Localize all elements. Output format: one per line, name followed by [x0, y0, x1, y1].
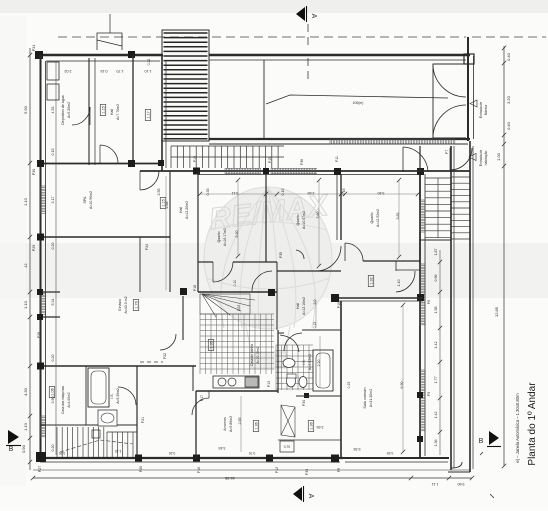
- short wall y=317: [37, 316, 60, 318]
- svg-text:P31: P31: [32, 45, 36, 51]
- svg-text:Entrada de: Entrada de: [479, 150, 483, 167]
- top exterior wall left part: [37, 54, 163, 56]
- svg-text:P18: P18: [193, 285, 197, 291]
- window band garage bottom wall: [330, 139, 455, 144]
- svg-text:I.S.: I.S.: [110, 393, 114, 398]
- junction top wall x=130: [128, 51, 135, 58]
- svg-text:P17: P17: [200, 395, 204, 401]
- wall below spa room / hall 12.20 left wall: [139, 237, 141, 292]
- bedroom3 door leaf: [344, 243, 346, 261]
- svg-text:P7: P7: [445, 150, 449, 154]
- svg-text:P16: P16: [197, 467, 201, 473]
- section marker B left: [8, 430, 19, 444]
- main stairwell treads: [425, 178, 451, 238]
- svg-text:5.20: 5.20: [235, 231, 239, 238]
- svg-text:3.80: 3.80: [316, 212, 320, 219]
- dashed line y=362: [140, 361, 163, 363]
- closet door P35: [296, 250, 304, 259]
- sala west wall x=341: [340, 301, 342, 458]
- svg-text:P35: P35: [279, 252, 283, 258]
- svg-text:1.36: 1.36: [434, 440, 438, 447]
- svg-text:A: A: [310, 14, 317, 19]
- bathroom top wall y=292: [198, 291, 277, 293]
- svg-text:B: B: [479, 438, 484, 445]
- svg-text:P11: P11: [335, 156, 339, 162]
- svg-text:1.10: 1.10: [23, 197, 28, 206]
- sala bottom wall: [343, 457, 449, 459]
- svg-text:A=31.30m2: A=31.30m2: [369, 389, 373, 407]
- svg-text:3.17: 3.17: [51, 197, 55, 204]
- stairs direction line: [60, 440, 133, 452]
- svg-text:0.96: 0.96: [434, 275, 438, 282]
- svg-text:A=7.70m2: A=7.70m2: [116, 104, 120, 120]
- svg-text:0.25: 0.25: [387, 451, 394, 455]
- window corridor wall 1: [225, 168, 261, 173]
- svg-text:2.55: 2.55: [157, 189, 161, 196]
- corridor bottom wall: [140, 170, 470, 172]
- svg-text:0.05: 0.05: [237, 305, 241, 311]
- svg-text:A=5.35m2: A=5.35m2: [116, 388, 120, 404]
- left dimension chain: [29, 48, 31, 470]
- svg-text:SPA: SPA: [83, 196, 87, 204]
- IS 5.35 door arc: [118, 387, 136, 405]
- svg-text:5.35: 5.35: [354, 447, 361, 451]
- svg-text:P24: P24: [145, 244, 149, 250]
- svg-text:2.65: 2.65: [317, 425, 324, 429]
- svg-text:3.11: 3.11: [232, 191, 239, 195]
- stray marks bottom right: [490, 494, 494, 498]
- small room walls bottom-center: [296, 395, 341, 397]
- svg-text:1.10: 1.10: [145, 69, 152, 73]
- svg-text:0.15: 0.15: [51, 149, 55, 156]
- corridor stair treads: [171, 146, 284, 168]
- window east wall middle: [420, 264, 425, 326]
- svg-text:3.20: 3.20: [506, 95, 511, 104]
- svg-text:1.10: 1.10: [23, 422, 28, 431]
- svg-text:P13: P13: [267, 381, 271, 387]
- hall/sala divider wall y=298: [339, 297, 423, 299]
- svg-text:A=12.92m2: A=12.92m2: [376, 209, 380, 227]
- svg-text:B: B: [9, 446, 14, 453]
- svg-text:0.15: 0.15: [342, 189, 346, 196]
- svg-text:0.15: 0.15: [313, 322, 317, 329]
- door arc hall lower-left (P22): [160, 334, 176, 350]
- svg-text:P19: P19: [193, 156, 197, 162]
- IS 5.35 small basin: [92, 430, 100, 438]
- junction top-left inner: [128, 160, 135, 167]
- svg-text:3.45: 3.45: [219, 446, 226, 450]
- svg-text:A=16.17m2: A=16.17m2: [223, 228, 227, 246]
- junction P14: [268, 289, 275, 296]
- svg-text:1.42: 1.42: [434, 412, 438, 419]
- svg-text:0.15: 0.15: [347, 382, 351, 389]
- svg-text:Casa de banho: Casa de banho: [250, 344, 254, 367]
- wall left of stair block down: [161, 55, 163, 171]
- bathroom tile grid B: [276, 345, 313, 390]
- shaft with X bottom-center: [281, 405, 295, 437]
- svg-text:A=4.62m2: A=4.62m2: [308, 354, 312, 370]
- svg-text:0.20: 0.20: [51, 445, 55, 452]
- svg-text:1.17: 1.17: [147, 111, 151, 118]
- garage ramp arrow: [266, 95, 448, 104]
- svg-text:2.65: 2.65: [308, 191, 315, 195]
- svg-text:P12: P12: [275, 467, 279, 473]
- svg-text:12.85: 12.85: [494, 306, 499, 317]
- svg-text:4.53: 4.53: [51, 107, 55, 114]
- door arc deposits: [72, 107, 90, 125]
- svg-text:Entrada de: Entrada de: [479, 102, 483, 119]
- corridor wall x=183: [182, 296, 184, 340]
- svg-text:5.90: 5.90: [23, 105, 28, 114]
- svg-text:A=9.20m2: A=9.20m2: [67, 102, 71, 118]
- IS washbasin: [283, 359, 295, 368]
- svg-text:Hall: Hall: [110, 109, 114, 115]
- svg-text:0.70: 0.70: [284, 445, 291, 449]
- window left wall upper: [40, 186, 45, 214]
- svg-text:P9: P9: [337, 468, 341, 472]
- bath/IS divider wall x=277: [277, 330, 279, 393]
- svg-text:habitação: habitação: [484, 151, 488, 166]
- terrace wall (right): [450, 146, 452, 470]
- svg-text:P22: P22: [163, 353, 167, 359]
- svg-text:0.15: 0.15: [101, 69, 108, 73]
- bedroom1 west wall x=198: [197, 171, 199, 292]
- svg-text:A: A: [307, 494, 314, 499]
- svg-text:Hall: Hall: [296, 303, 300, 309]
- svg-text:Casa das máquinas: Casa das máquinas: [61, 386, 65, 415]
- svg-text:3.83: 3.83: [396, 213, 400, 220]
- svg-text:A=10.90m2: A=10.90m2: [89, 191, 93, 209]
- door arc kitchen: [396, 271, 415, 292]
- svg-text:3.0: 3.0: [313, 300, 317, 305]
- svg-text:P33: P33: [305, 469, 309, 475]
- junction P20: [135, 455, 142, 462]
- wall above lower stairs y=425: [40, 424, 137, 426]
- svg-text:Depósitos de água: Depósitos de água: [61, 95, 65, 124]
- svg-text:1.32: 1.32: [370, 277, 374, 284]
- east wall of building with windows: [419, 172, 421, 458]
- bedroom1/2 wall x=266: [265, 174, 267, 262]
- deposit tank 2: [47, 84, 59, 100]
- right dimension chain: [503, 46, 505, 466]
- boxed 0.70 area: [280, 441, 294, 452]
- section marker A bottom: [293, 487, 302, 501]
- casa maquinas bathtub (IS 5.35): [88, 368, 109, 407]
- bedroom2 bottom wall y=271: [277, 270, 341, 272]
- garage inner partition: [263, 60, 265, 138]
- IS 4.62 fixtures: shower: [280, 335, 299, 352]
- svg-text:1.76: 1.76: [135, 301, 139, 308]
- junction P30: [37, 160, 44, 167]
- junction P27: [36, 452, 46, 462]
- junction P9: [331, 455, 339, 463]
- inner-left dimension chain: [55, 62, 57, 455]
- arrumos west wall x=196: [195, 391, 197, 458]
- svg-text:A=12.20m2: A=12.20m2: [185, 201, 189, 219]
- svg-text:1.15: 1.15: [102, 106, 106, 113]
- door arc SPA: [140, 171, 159, 190]
- svg-text:1.40: 1.40: [397, 280, 401, 287]
- svg-text:0.20: 0.20: [51, 243, 55, 250]
- RE/MAX watermark balloon: [204, 187, 332, 368]
- wall under counters y=390: [196, 390, 278, 392]
- svg-text:A=4.90m2: A=4.90m2: [67, 392, 71, 407]
- svg-text:Planta do 1º Andar: Planta do 1º Andar: [527, 382, 538, 466]
- door arc bedroom2: [316, 246, 341, 271]
- door arc bedroom3: [345, 243, 363, 261]
- IS 5.35 toilet: [98, 410, 117, 426]
- svg-text:1.36: 1.36: [310, 422, 314, 429]
- terrace entrance door arc: [450, 148, 472, 170]
- garage right wall: [467, 37, 469, 141]
- svg-text:2.88: 2.88: [165, 202, 169, 209]
- svg-text:A=43.0 m2: A=43.0 m2: [124, 296, 128, 313]
- entrance door arc P7: [402, 147, 404, 172]
- top exterior wall right part (garage): [209, 54, 470, 56]
- svg-text:e) – Janela Automática – 1.30x: e) – Janela Automática – 1.30x0.80m: [515, 393, 520, 463]
- svg-text:fábrica: fábrica: [484, 105, 488, 115]
- svg-text:1.11: 1.11: [432, 482, 439, 486]
- left exterior wall: [40, 55, 42, 462]
- junction left y=365: [37, 363, 44, 370]
- svg-text:Sala comum: Sala comum: [363, 387, 367, 408]
- svg-text:P27: P27: [38, 466, 42, 472]
- bedroom1 bottom wall: [198, 261, 213, 263]
- door arc casa de banho: [252, 271, 272, 291]
- svg-text:100(m): 100(m): [353, 101, 364, 105]
- svg-text:2.02: 2.02: [65, 69, 72, 73]
- svg-text:P5: P5: [427, 392, 431, 396]
- winder stair fan: [200, 294, 255, 317]
- kitchen step wall: [395, 261, 397, 271]
- svg-text:A=9.86m2: A=9.86m2: [229, 416, 233, 432]
- IS top wall + door: [278, 332, 284, 334]
- svg-text:A=10.10m2: A=10.10m2: [256, 346, 260, 363]
- svg-text:1.10: 1.10: [115, 449, 122, 453]
- svg-text:0.90: 0.90: [21, 444, 26, 453]
- bathroom tile grid A: [200, 314, 274, 374]
- lower stairs flight 2: [107, 432, 137, 457]
- svg-text:P10: P10: [337, 302, 341, 308]
- svg-text:0.35: 0.35: [206, 189, 210, 196]
- svg-text:3.40: 3.40: [378, 191, 385, 195]
- hall west wall x=170: [169, 171, 171, 292]
- svg-text:4.30: 4.30: [23, 387, 28, 396]
- bottom exterior wall: [37, 457, 343, 459]
- window corridor wall 2: [271, 168, 317, 173]
- svg-text:1.42: 1.42: [434, 342, 438, 349]
- svg-text:5.31: 5.31: [51, 299, 55, 306]
- svg-text:0.20: 0.20: [169, 451, 176, 455]
- terrace bottom corner: [448, 462, 470, 472]
- svg-text:0.70: 0.70: [249, 451, 256, 455]
- door arc bedroom1: [213, 262, 233, 282]
- hatched upper stair flight block: [162, 30, 209, 141]
- svg-text:16.85: 16.85: [224, 476, 235, 481]
- svg-text:P28: P28: [37, 332, 41, 338]
- IS toilet: [287, 375, 296, 387]
- svg-text:Arrumos: Arrumos: [223, 417, 227, 431]
- window east wall lower: [420, 370, 425, 432]
- svg-text:0.20: 0.20: [51, 355, 55, 362]
- IS bathtub: [313, 350, 333, 391]
- interior dim leader lines: [166, 176, 418, 452]
- svg-text:1.70: 1.70: [117, 69, 124, 73]
- deposit tank 1: [47, 62, 59, 80]
- junction east wall mid P6: [417, 294, 424, 301]
- svg-text:3.20: 3.20: [59, 451, 66, 455]
- kitchen counter row bottom (x=213-259): [213, 376, 259, 388]
- svg-text:0.40: 0.40: [506, 121, 511, 130]
- section line A-A top: [307, 24, 309, 50]
- svg-text:P15: P15: [268, 157, 272, 163]
- dashed roof overhang line: [58, 36, 466, 38]
- terrace outer edge: [469, 141, 471, 472]
- junction P11: [334, 168, 341, 175]
- casa maquinas top wall y=365: [37, 365, 196, 367]
- IS north wall y=330: [302, 329, 341, 331]
- door arc IS 4.62: [284, 333, 302, 351]
- svg-text:1.77: 1.77: [434, 377, 438, 384]
- svg-text:Quarto: Quarto: [296, 215, 300, 226]
- window left wall middle: [40, 292, 45, 316]
- bedroom2 door: [340, 244, 342, 246]
- junction top-left corner: [35, 51, 43, 59]
- svg-text:Quarto: Quarto: [217, 232, 221, 243]
- stairwell bottom wall: [420, 239, 451, 241]
- stairwell lower treads: [451, 177, 470, 239]
- door arc top-left hall: [99, 145, 101, 163]
- junction P29: [37, 234, 44, 241]
- svg-text:1.06: 1.06: [51, 388, 55, 395]
- junction east wall low: [417, 436, 423, 442]
- junction box garage top-right: [464, 54, 474, 64]
- svg-text:Ginásio: Ginásio: [118, 299, 122, 311]
- svg-text:A=12.16m2: A=12.16m2: [302, 297, 306, 315]
- junction east wall P5: [417, 392, 423, 398]
- bedroom2/3 wall x=341: [340, 174, 342, 240]
- wall between deposits and hall (top-left): [88, 58, 90, 165]
- svg-text:1.10: 1.10: [23, 300, 28, 309]
- central hall east wall x=277: [276, 262, 278, 330]
- svg-text:Hall: Hall: [179, 207, 183, 213]
- wall right of top-left hall: [132, 55, 134, 163]
- lower stairs flight 1: [57, 427, 104, 457]
- junction P34: [304, 393, 309, 398]
- svg-text:P29: P29: [32, 245, 36, 251]
- window left wall lower: [40, 416, 45, 438]
- svg-text:P6: P6: [427, 300, 431, 304]
- svg-text:Quarto: Quarto: [370, 213, 374, 224]
- svg-text:P36: P36: [300, 159, 304, 165]
- svg-text:A=10.07m2: A=10.07m2: [302, 211, 306, 229]
- inner-right dimension chain: [439, 250, 441, 455]
- chimney detail top-left: [97, 33, 122, 50]
- wall casa maquinas right: [85, 366, 87, 425]
- svg-text:0.15: 0.15: [281, 189, 285, 196]
- svg-text:P30: P30: [32, 169, 36, 175]
- IS bidet: [299, 377, 307, 388]
- junction P18: [180, 288, 187, 295]
- junction east wall top: [417, 168, 424, 175]
- bedroom3 bottom wall y=261: [363, 260, 420, 262]
- garage double door arcs: [433, 64, 466, 138]
- garage bottom wall: [209, 138, 470, 140]
- bottom dimension chains: [33, 469, 470, 471]
- junction P16: [193, 455, 200, 462]
- svg-text:1.00: 1.00: [496, 152, 501, 161]
- svg-text:1.87: 1.87: [434, 249, 438, 256]
- SPA bottom wall y=237: [37, 236, 170, 238]
- svg-text:9.60: 9.60: [458, 482, 465, 486]
- svg-text:6.90: 6.90: [400, 382, 404, 389]
- svg-text:0.10: 0.10: [233, 280, 237, 287]
- svg-text:P34: P34: [302, 400, 306, 406]
- junction mid corridor: [263, 168, 269, 174]
- svg-text:1.58: 1.58: [434, 307, 438, 314]
- svg-text:1.36: 1.36: [255, 422, 259, 429]
- svg-text:1.35: 1.35: [210, 341, 214, 348]
- svg-text:2.85: 2.85: [238, 418, 242, 425]
- svg-text:0.40: 0.40: [506, 52, 511, 61]
- wall x=137 lower-left: [136, 366, 138, 458]
- svg-text:P21: P21: [141, 417, 145, 423]
- SPA top wall y=163: [37, 163, 163, 165]
- window east wall upper: [420, 200, 425, 232]
- section marker B right: [489, 431, 499, 445]
- svg-text:2.20: 2.20: [317, 360, 321, 367]
- section marker A top: [296, 7, 305, 21]
- lower-left horizontal wall y=292: [37, 291, 60, 293]
- junction P10: [331, 294, 339, 302]
- svg-text:0.22: 0.22: [147, 59, 151, 66]
- junction P19: [193, 168, 200, 175]
- svg-text:I.S.: I.S.: [302, 359, 306, 364]
- arrumos door P17: [192, 398, 209, 415]
- svg-text:P20: P20: [139, 466, 143, 472]
- junction P12: [266, 455, 273, 462]
- svg-text:.42: .42: [24, 264, 28, 269]
